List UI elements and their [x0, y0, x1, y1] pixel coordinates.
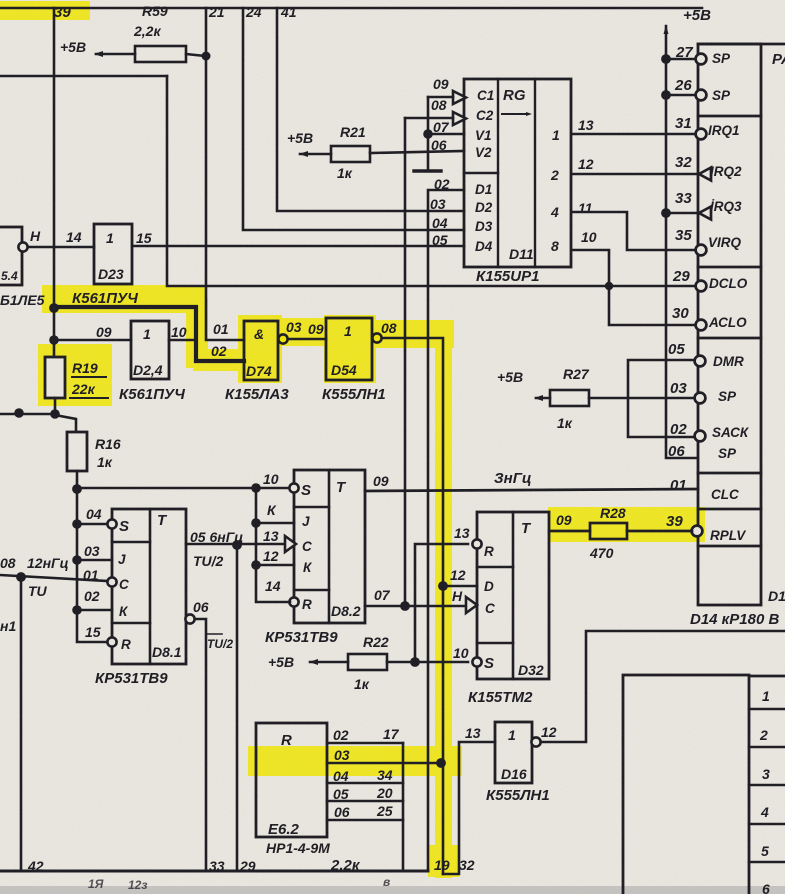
resistor R22 [268, 634, 389, 692]
highlight RPLV R28 row [548, 507, 705, 542]
junction dot R59 bus21 [202, 52, 211, 61]
label K555LN1 [322, 386, 386, 403]
wire D8.2 out 07 to D32 C [365, 605, 466, 608]
gate D74 K155LA3 [244, 321, 278, 380]
wire top border [0, 7, 702, 10]
resistor R28 [556, 505, 626, 561]
connector pin circles [696, 54, 707, 65]
junction dot D24 input [49, 335, 59, 345]
resistor R27 [497, 366, 590, 431]
wire stub D8.1 J [77, 559, 112, 562]
node 39 top-left label [54, 4, 71, 21]
wire V1 net 07 [428, 133, 464, 136]
wire short vertical C1-V1-bar [427, 97, 430, 171]
wire D24 output net 10 [169, 339, 196, 342]
junction dot R16 net [72, 484, 82, 494]
junction dot D8.2 S [251, 483, 261, 493]
output wire 13 to IRQ1 [572, 133, 696, 136]
wire stub D8.2 J [256, 522, 294, 525]
resistor R59 [60, 3, 168, 55]
junction dot D8.1 J [72, 555, 82, 565]
wire D8.1 out 06 [185, 614, 194, 623]
buffer D24 [131, 321, 169, 379]
connector pin numbers [666, 44, 693, 530]
junction dot line415 [410, 657, 420, 667]
wire line A net 08-07 [404, 118, 407, 606]
buffer D23 [94, 224, 132, 284]
wire E6.2 common vertical [402, 743, 405, 871]
wire jog to R16 [55, 415, 76, 432]
wire bus 24 [243, 8, 464, 230]
wire bus 41 [277, 8, 464, 211]
resistor R19 [45, 357, 65, 398]
wire D74 out to D54 in [288, 338, 326, 341]
fuse block E6.2 NR1-4-9M [256, 723, 327, 837]
triangle IRQ2 [699, 168, 711, 181]
wire 12nHz clock line [0, 575, 107, 581]
junction dot IRQ3 [661, 208, 671, 218]
label TI/2 inverted [207, 637, 233, 651]
highlight wire to D74 [193, 349, 251, 371]
highlight R19 [38, 344, 112, 406]
wire D8.1 out 6nHz [186, 543, 285, 546]
label PA adjacent box [772, 51, 785, 68]
wire thick net 39 to D74 [54, 307, 244, 361]
junction dot D8.1 S [72, 519, 82, 529]
label K155UP1 [476, 268, 539, 285]
wire D32 R feed [415, 544, 468, 662]
wire R27 to SP03 [589, 397, 694, 400]
wire C1 net 09 [428, 96, 453, 99]
triangle D32 C dynamic [466, 597, 477, 613]
triangle D8.2 C dynamic [285, 536, 296, 552]
pin C2 dynamic triangle [453, 112, 466, 125]
wire stub D8.1 K [77, 609, 112, 612]
inverter D54 K555LN1 [326, 318, 372, 380]
wire bus 21 [206, 8, 244, 340]
wire stub D8.1 S [77, 523, 108, 526]
flip-flop D32 K155TM2 [477, 512, 549, 679]
wire C2 net 08 from line A [405, 117, 453, 120]
highlight net 08 band [374, 320, 454, 348]
wire R16 bottom [76, 471, 79, 488]
wire net 08 down long yellow vertical [382, 338, 443, 874]
wire net 21 feed to DCLO line [167, 76, 696, 286]
wire R28 to RPLV [627, 530, 692, 533]
chip bottom right [623, 675, 749, 894]
highlight D54 gate [324, 315, 376, 383]
wire bracket DMR SACK [628, 360, 694, 437]
junction dot SP27 [661, 54, 671, 64]
wire R22 to D32 S [387, 661, 468, 664]
junction dot TI [16, 572, 26, 582]
+5V rail right [683, 7, 711, 24]
register D11 K155IR1 [464, 79, 571, 267]
inverter D16 K555LN1 [465, 725, 481, 741]
wire R19 bottom to left edge [54, 398, 57, 412]
junction dot net39 thick wire [49, 303, 59, 313]
output wire 11 to VIRQ [572, 212, 696, 250]
label K155TM2 [468, 689, 533, 706]
wire to D24 input [54, 339, 131, 342]
highlight thick wire vertical [186, 298, 208, 368]
label K155LA3 [225, 386, 289, 403]
label KR531TV9 second [265, 629, 338, 646]
junction dot line A bottom [400, 601, 410, 611]
highlight E6.2 row 03 [248, 746, 462, 776]
label D1 adjacent [768, 588, 785, 604]
wire gate to D23 [28, 246, 94, 249]
junction dot SP26 [661, 90, 671, 100]
faint bottom scan marks [88, 875, 390, 892]
label K555LN1 [486, 787, 550, 804]
wire 3nHz to CLC [365, 489, 698, 491]
wire D32 D input net 12 [443, 585, 477, 588]
wire left vertical net 39 [53, 8, 56, 358]
wire net 15 D23 to RG D4 [132, 245, 464, 248]
highlight bottom 19 label [428, 845, 459, 877]
wire stub D8.2 K [256, 564, 294, 567]
wire stub IRQ3 [666, 212, 698, 215]
output wire 12 to IRQ2 [572, 173, 698, 176]
input net labels [430, 76, 450, 248]
triangle IRQ3 [699, 207, 711, 220]
resistor R21 [287, 124, 366, 181]
node 19 and 32 labels [434, 857, 475, 873]
junction dot D8.2 J [251, 518, 261, 528]
wire R21 to V2 [370, 151, 464, 153]
wire E6.2 pin 04 [327, 782, 403, 785]
label D14 KR180 [690, 611, 779, 628]
highlight top-left 39 [0, 1, 90, 20]
pin C1 dynamic triangle [453, 91, 466, 104]
wire E6.2 pin 06 [327, 819, 403, 822]
wire D8.1 pullup vertical [77, 489, 108, 642]
label K561PU4 upper [72, 290, 138, 307]
junction dot V1 [423, 129, 433, 139]
wire net10 R16 to D8.2 S [77, 487, 290, 490]
wire E6.2 pin 03 highlighted [327, 762, 443, 765]
wire D16 out to right edge [541, 631, 785, 742]
highlight vertical net down to 19 [435, 332, 452, 878]
connector box D14 [698, 43, 785, 46]
node H [30, 228, 82, 245]
wire D16 input from yellow net [443, 742, 495, 874]
junction dot left [14, 408, 24, 418]
wire stub SP26 [666, 94, 696, 97]
wire E6.2 pin 02 [327, 742, 403, 745]
flip-flop D8.2 KR531TV9 [294, 470, 365, 623]
label KR531TV9 [95, 670, 168, 687]
junction dot R19 bottom [50, 409, 60, 419]
output wire 10 to DCLO ACLO [572, 250, 696, 325]
label n1 left edge [0, 618, 16, 634]
common bar symbol [414, 169, 441, 172]
label NR1-4-9M [266, 840, 361, 874]
wire D1 net 02 long vertical [428, 190, 464, 871]
wire bottom rail [0, 870, 428, 873]
wire E6.2 pin 05 [327, 800, 403, 803]
wire TI vertical net 42 [20, 577, 23, 871]
flip-flop D8.1 KR531TV9 [112, 509, 186, 664]
junction dot D8.2 K [251, 560, 261, 570]
highlight D74 gate [238, 315, 282, 383]
junction dot 6nHz branch [232, 540, 242, 550]
highlight K561PU4 label band [42, 285, 207, 313]
wire 6nHz down net 29 [236, 545, 239, 871]
wire second left horizontal [0, 75, 167, 78]
wire D8.2 pullup vertical [256, 488, 290, 602]
junction dot net10-DCLO [605, 282, 613, 290]
wire stub SP27 [666, 58, 696, 61]
junction dot D8.1 K [72, 605, 82, 615]
connector signal names [708, 51, 750, 543]
highlight net 03-09 band [280, 318, 328, 346]
pin labels D8.1 [83, 506, 102, 640]
resistor R16 [67, 432, 87, 471]
gate D5.4 K561LE5 [0, 227, 22, 285]
